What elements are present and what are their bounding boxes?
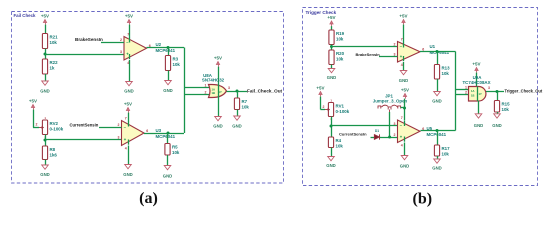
svg-text:10k: 10k [442,152,450,157]
svg-text:1k6: 1k6 [50,153,58,158]
svg-text:+5V: +5V [472,62,480,67]
svg-text:1: 1 [465,86,467,90]
wire [184,48,186,134]
wire [403,25,405,43]
wire [184,94,209,96]
wire [404,143,406,156]
junction [388,136,391,139]
svg-text:10k: 10k [242,105,250,110]
svg-text:3: 3 [228,86,230,90]
wire [45,25,47,34]
svg-text:0-100k: 0-100k [50,127,64,132]
ground [234,116,241,120]
svg-text:3: 3 [394,122,396,126]
svg-text:+5V: +5V [399,14,407,19]
wire [101,42,124,44]
svg-text:GND: GND [400,163,409,168]
wire [421,130,456,132]
junction [403,107,406,110]
potentiometer RV1 [328,103,333,117]
svg-text:4: 4 [401,144,403,148]
svg-text:Trigger_Check_Out: Trigger_Check_Out [505,89,543,94]
svg-text:2: 2 [120,38,122,42]
wire [45,54,124,56]
op-amp U5 [398,120,421,143]
ground [126,82,133,86]
resistor R21 [42,34,47,49]
svg-text:U2: U2 [156,42,162,47]
wire [144,133,184,135]
wire [99,127,122,129]
svg-text:TC74HC08AX: TC74HC08AX [462,80,490,85]
svg-text:SN74HC32: SN74HC32 [202,78,225,83]
op-amp U2 [124,37,147,61]
junction [236,90,239,93]
svg-text:MCP6041: MCP6041 [156,48,176,53]
node divider B [44,139,47,142]
wire [33,110,35,128]
svg-text:2: 2 [118,123,120,127]
ground [401,156,408,160]
wire [168,71,170,81]
ground [165,81,172,85]
svg-text:3: 3 [118,136,120,140]
svg-text:3: 3 [120,50,122,54]
wire [331,26,333,30]
wire [45,160,47,166]
wire [380,137,398,139]
svg-text:BrakeSensIn: BrakeSensIn [75,37,103,42]
svg-text:+5V: +5V [316,86,324,91]
wire [403,62,405,71]
svg-text:GND: GND [40,89,49,94]
svg-text:R21: R21 [50,35,59,40]
ground [328,157,335,161]
svg-text:MCP6041: MCP6041 [427,132,447,137]
svg-text:GND: GND [124,89,133,94]
svg-text:RV2: RV2 [50,121,59,126]
svg-text:GND: GND [40,172,49,177]
svg-text:10k: 10k [502,107,510,112]
svg-text:1B: 1B [212,91,215,95]
svg-text:R19: R19 [336,31,345,36]
op-amp U3 [122,121,145,146]
node divider D [330,125,333,128]
svg-text:MCP6041: MCP6041 [156,134,176,139]
wire [476,73,478,87]
svg-text:GND: GND [213,124,222,129]
svg-text:RV1: RV1 [336,104,345,109]
junction [496,90,499,93]
svg-text:+5V: +5V [41,14,49,19]
ground [215,117,222,121]
wire [456,89,470,91]
svg-text:2: 2 [394,43,396,47]
svg-text:3: 3 [488,86,490,90]
panel (b) sheet border Trigger Check [303,8,538,186]
resistor R5 [165,144,170,156]
wire [497,92,499,101]
svg-text:R7: R7 [242,99,248,104]
svg-text:R3: R3 [173,57,179,62]
svg-text:GND: GND [399,78,408,83]
svg-text:GND: GND [163,88,172,93]
svg-text:10k: 10k [336,144,344,149]
resistor R22 [42,59,47,74]
resistor R15 [494,101,499,113]
svg-text:GND: GND [474,123,483,128]
wire [129,25,131,38]
wire [379,56,398,58]
wire [331,65,333,69]
svg-text:10k: 10k [50,40,58,45]
svg-text:0-100k: 0-100k [336,109,350,114]
wire [478,101,480,114]
svg-text:4: 4 [401,63,403,67]
and-gate U9A TC74HC08AX [469,87,486,102]
resistor R20 [329,50,334,65]
ground [434,159,441,163]
wire [437,156,439,159]
wire [147,47,185,49]
wire [437,131,439,146]
svg-text:+5V: +5V [401,88,409,93]
svg-text:(a): (a) [139,190,158,207]
wire [227,91,248,93]
wire [167,155,169,166]
svg-text:4: 4 [125,147,127,151]
wire [218,97,220,117]
svg-text:10k: 10k [336,37,344,42]
svg-text:1B: 1B [471,93,474,97]
svg-text:7: 7 [401,116,403,120]
ground [42,165,49,169]
svg-text:CurrentSensIn: CurrentSensIn [70,123,99,128]
wire [128,146,130,165]
svg-text:Fail Check: Fail Check [14,13,37,18]
potentiometer RV2 [42,120,47,135]
svg-text:R5: R5 [172,145,178,150]
svg-text:1: 1 [205,84,207,88]
svg-text:CurrentSensIn: CurrentSensIn [339,132,367,137]
wire [129,60,131,82]
wire [404,99,406,121]
svg-text:2: 2 [394,133,396,137]
svg-text:BrakeSensIn: BrakeSensIn [356,52,381,57]
wire [218,85,220,98]
node divider C [330,45,333,48]
svg-text:GND: GND [232,124,241,129]
svg-text:10k: 10k [336,57,344,62]
ground [400,71,407,75]
wire [320,97,322,110]
svg-text:+5V: +5V [29,99,37,104]
wire [33,127,39,129]
resistor R19 [329,30,334,45]
svg-text:1Y: 1Y [479,92,482,96]
resistor R13 [434,65,439,80]
wire [218,67,220,86]
diode D1 [374,135,379,140]
wire [331,45,333,51]
svg-text:7: 7 [127,32,129,36]
svg-text:10k: 10k [442,71,450,76]
node divider A [44,53,47,56]
svg-text:1k: 1k [50,66,55,71]
wire [45,135,47,147]
wire [332,46,398,48]
svg-text:10k: 10k [172,150,180,155]
wire [331,148,333,157]
wire [45,49,47,60]
wire [45,74,47,81]
svg-text:7: 7 [401,37,403,41]
svg-text:Jumper_3_Open: Jumper_3_Open [373,99,408,104]
svg-text:6: 6 [146,129,148,133]
ground [434,92,441,96]
svg-text:10k: 10k [173,62,181,67]
svg-text:2: 2 [465,91,467,95]
ground [164,166,171,170]
wire [401,107,405,109]
svg-text:1A: 1A [471,89,474,93]
wire [456,94,470,96]
svg-text:GND: GND [123,172,132,177]
svg-text:(b): (b) [413,190,433,207]
wire [497,112,499,114]
resistor R7 [234,98,239,110]
svg-text:U1: U1 [430,44,436,49]
resistor R17 [434,145,439,156]
svg-text:MCP6041: MCP6041 [430,50,450,55]
junction [167,132,170,135]
wire [45,139,122,141]
resistor R3 [165,56,170,71]
svg-text:R22: R22 [50,60,59,65]
wire [455,52,457,131]
wire [128,113,130,122]
ground [494,114,501,118]
svg-text:R15: R15 [502,102,511,107]
svg-text:GND: GND [326,163,335,168]
wire [331,125,398,127]
wire [237,91,239,98]
svg-text:+5V: +5V [214,56,222,61]
svg-text:+5V: +5V [125,14,133,19]
panel (a) sheet border Fail Check [12,12,284,184]
svg-text:GND: GND [432,165,441,170]
wire [389,112,391,137]
svg-text:1A: 1A [212,88,215,92]
junction [167,46,170,49]
svg-text:R20: R20 [336,51,345,56]
wire [168,48,170,56]
ground [328,69,335,73]
svg-text:+5V: +5V [327,15,335,20]
wire [371,137,375,139]
resistor R8 [42,146,47,160]
junction [436,129,439,132]
svg-text:GND: GND [163,174,172,179]
ground [125,165,132,169]
op-amp U1 [398,42,421,63]
or-gate U8A SN74HC32 [209,85,227,98]
svg-text:Fail_Check_Out: Fail_Check_Out [247,88,283,93]
wire [437,79,439,92]
wire [321,109,326,111]
wire [486,91,504,93]
svg-text:7: 7 [125,116,127,120]
svg-text:R4: R4 [336,138,342,143]
wire [184,87,209,89]
wire [237,110,239,117]
svg-text:R17: R17 [442,146,451,151]
svg-text:GND: GND [432,99,441,104]
wire [437,52,439,65]
svg-text:2: 2 [36,123,38,127]
ground [475,114,482,118]
svg-text:R13: R13 [442,66,451,71]
wire [167,133,169,144]
wire [477,87,479,102]
svg-text:R8: R8 [50,147,56,152]
ground [42,81,49,85]
junction [436,50,439,53]
svg-text:+5V: +5V [124,102,132,107]
svg-text:GND: GND [492,123,501,128]
wire [420,51,456,53]
wire [331,117,333,138]
svg-text:U3: U3 [156,128,162,133]
svg-text:2: 2 [323,105,325,109]
resistor R4 [328,137,333,148]
svg-text:2: 2 [205,91,207,95]
svg-text:D1: D1 [375,129,379,133]
svg-text:GND: GND [327,75,336,80]
